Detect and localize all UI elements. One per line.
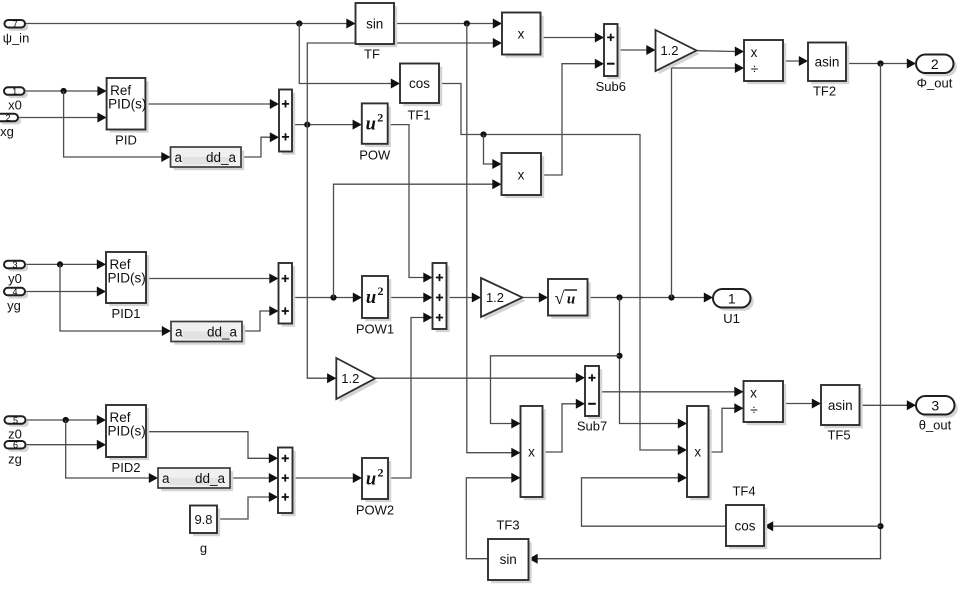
svg-text:2: 2 xyxy=(378,466,384,480)
svg-text:TF: TF xyxy=(364,47,380,62)
svg-text:POW: POW xyxy=(359,147,391,162)
svg-text:4: 4 xyxy=(12,287,17,297)
svg-text:dd_a: dd_a xyxy=(195,471,226,486)
svg-text:Ref: Ref xyxy=(110,257,131,272)
svg-text:a: a xyxy=(162,471,170,486)
svg-text:u: u xyxy=(366,288,376,308)
svg-text:x: x xyxy=(518,27,525,42)
svg-text:g: g xyxy=(200,541,207,556)
svg-text:PID(s): PID(s) xyxy=(108,97,146,112)
svg-text:a: a xyxy=(175,325,183,340)
svg-text:x: x xyxy=(694,445,701,460)
svg-text:U1: U1 xyxy=(723,311,740,326)
svg-text:PID: PID xyxy=(115,133,137,148)
svg-text:TF4: TF4 xyxy=(732,484,755,499)
svg-text:1.2: 1.2 xyxy=(341,371,359,386)
svg-text:1: 1 xyxy=(728,290,736,306)
svg-text:x: x xyxy=(518,167,525,182)
svg-text:yg: yg xyxy=(7,298,21,313)
svg-text:u: u xyxy=(366,115,376,135)
svg-text:cos: cos xyxy=(409,76,430,91)
svg-text:PID2: PID2 xyxy=(112,460,141,475)
svg-text:2: 2 xyxy=(378,284,384,298)
svg-text:xg: xg xyxy=(0,124,14,139)
svg-text:zg: zg xyxy=(8,452,22,467)
svg-text:u: u xyxy=(366,470,376,490)
svg-text:POW2: POW2 xyxy=(356,503,394,518)
svg-text:PID(s): PID(s) xyxy=(108,424,146,439)
svg-text:θ_out: θ_out xyxy=(919,418,952,433)
svg-text:3: 3 xyxy=(12,260,17,270)
svg-text:1.2: 1.2 xyxy=(660,43,678,58)
svg-text:6: 6 xyxy=(13,440,18,450)
svg-text:TF2: TF2 xyxy=(813,84,836,99)
svg-text:ψ_in: ψ_in xyxy=(3,31,30,46)
svg-text:a: a xyxy=(175,150,183,165)
svg-text:POW1: POW1 xyxy=(356,322,394,337)
svg-text:asin: asin xyxy=(828,398,853,413)
svg-text:2: 2 xyxy=(5,113,10,123)
svg-text:√: √ xyxy=(555,288,565,308)
svg-text:1.2: 1.2 xyxy=(486,290,504,305)
svg-text:x: x xyxy=(751,45,758,60)
svg-text:5: 5 xyxy=(13,415,18,425)
svg-text:9.8: 9.8 xyxy=(194,512,212,527)
svg-text:Ref: Ref xyxy=(110,83,131,98)
svg-text:sin: sin xyxy=(366,16,383,31)
svg-text:x: x xyxy=(528,445,535,460)
svg-text:TF1: TF1 xyxy=(407,108,430,123)
svg-text:PID1: PID1 xyxy=(112,306,141,321)
svg-text:2: 2 xyxy=(931,56,939,72)
svg-text:2: 2 xyxy=(377,111,383,125)
svg-text:Sub7: Sub7 xyxy=(577,419,607,434)
svg-text:Φ_out: Φ_out xyxy=(917,76,953,91)
svg-text:y0: y0 xyxy=(8,271,22,286)
svg-text:1: 1 xyxy=(12,87,17,97)
svg-text:dd_a: dd_a xyxy=(207,325,238,340)
svg-text:PID(s): PID(s) xyxy=(108,271,146,286)
svg-text:7: 7 xyxy=(13,19,18,29)
svg-text:÷: ÷ xyxy=(751,62,758,77)
svg-text:Ref: Ref xyxy=(110,410,131,425)
svg-text:÷: ÷ xyxy=(750,402,757,417)
svg-text:u: u xyxy=(567,292,575,308)
svg-text:TF5: TF5 xyxy=(827,428,850,443)
svg-text:TF3: TF3 xyxy=(496,518,519,533)
svg-text:asin: asin xyxy=(815,55,840,70)
svg-text:x: x xyxy=(750,386,757,401)
svg-text:dd_a: dd_a xyxy=(206,150,237,165)
svg-text:Sub6: Sub6 xyxy=(596,79,626,94)
svg-text:x0: x0 xyxy=(8,98,22,113)
svg-text:cos: cos xyxy=(734,518,755,533)
svg-text:sin: sin xyxy=(500,552,517,567)
svg-text:3: 3 xyxy=(931,397,939,413)
